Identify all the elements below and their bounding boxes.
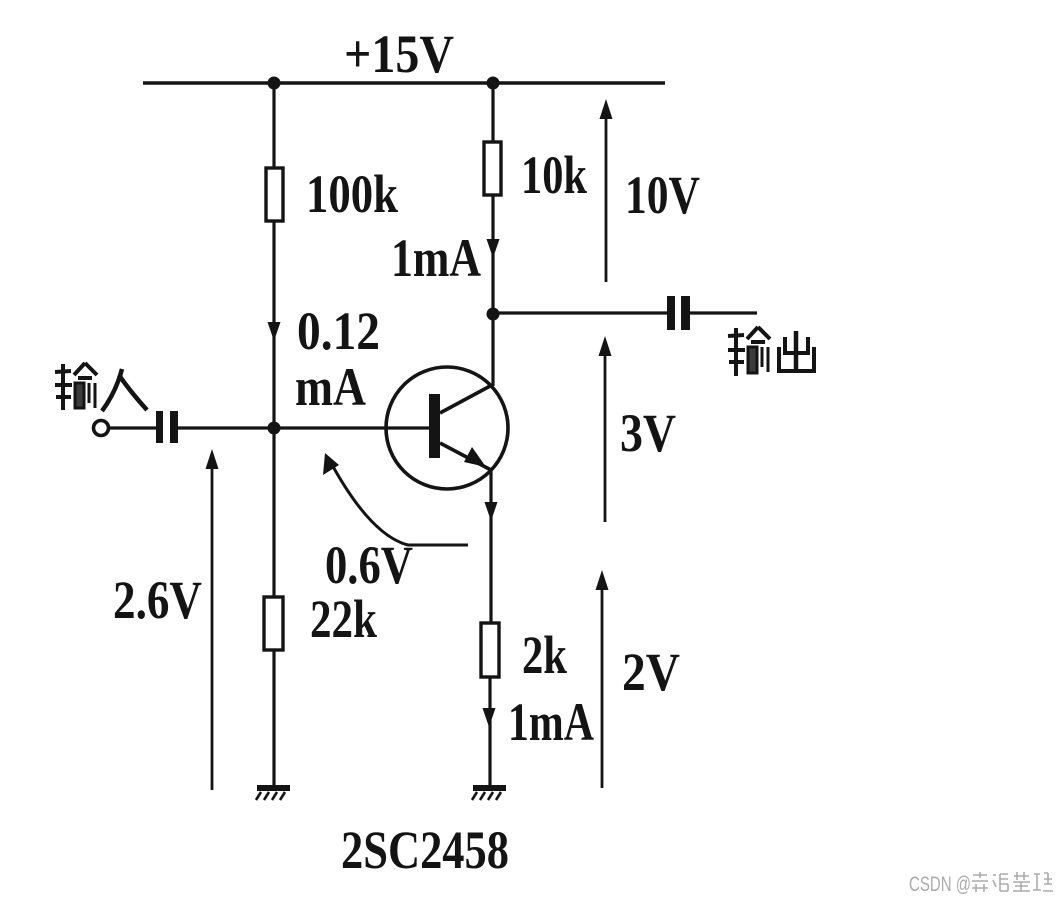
node: base junction — [268, 422, 281, 435]
wire rail to R1 — [272, 83, 275, 170]
label 0.6V — [325, 535, 413, 595]
capacitor C1 — [156, 411, 178, 443]
label 22k — [310, 589, 377, 649]
label 1mA (bottom) — [508, 692, 594, 752]
svg-text:10V: 10V — [625, 165, 700, 225]
measurement arrow 3V — [599, 336, 612, 522]
label 2.6V — [113, 570, 202, 630]
node: rail / R1 junction — [268, 77, 281, 90]
label 输入 (drawn glyphs) — [55, 363, 147, 411]
wire R3 to ground — [272, 650, 275, 786]
label 3V — [620, 403, 676, 463]
capacitor C2 — [667, 296, 690, 330]
label 0.12 — [297, 301, 380, 361]
node: collector junction — [487, 308, 500, 321]
svg-text:10k: 10k — [521, 145, 587, 205]
label 1mA (top) — [391, 228, 481, 288]
wire C2 to output — [690, 311, 757, 314]
svg-text:0.12: 0.12 — [297, 301, 380, 361]
svg-text:2V: 2V — [622, 642, 680, 702]
label 输出 (drawn glyphs) — [728, 327, 814, 376]
+15V supply rail — [143, 81, 665, 84]
label 10k — [521, 145, 587, 205]
wire R1 to base node — [272, 221, 275, 429]
current arrow 1mA (down) — [487, 239, 500, 258]
svg-text:+15V: +15V — [344, 24, 454, 84]
svg-text:2k: 2k — [522, 625, 567, 685]
label 2SC2458 — [341, 820, 509, 880]
svg-text:22k: 22k — [310, 589, 377, 649]
resistor R3 22k — [264, 597, 283, 650]
svg-text:1mA: 1mA — [508, 692, 594, 752]
wire R4 to ground — [488, 677, 491, 786]
label +15V — [344, 24, 454, 84]
watermark CSDN @笔记整理 — [909, 872, 1053, 896]
resistor R1 100k — [266, 168, 283, 221]
label 2k — [522, 625, 567, 685]
input terminal — [94, 421, 109, 436]
wire C1 to transistor base — [178, 426, 431, 429]
wire input terminal to C1 — [109, 426, 157, 429]
measurement arrow 2.6V — [206, 449, 219, 790]
label 100k — [306, 164, 398, 224]
label 10V — [625, 165, 700, 225]
annotation curved arrow 0.6V — [323, 453, 468, 545]
node: rail / R2 junction — [487, 77, 500, 90]
wire collector node to C2 — [493, 311, 667, 314]
wire rail to R2 — [491, 83, 494, 144]
label 2V — [622, 642, 680, 702]
current arrow at emitter (down) — [485, 502, 498, 521]
svg-text:3V: 3V — [620, 403, 676, 463]
resistor R2 10k — [484, 142, 501, 195]
svg-text:2.6V: 2.6V — [113, 570, 202, 630]
transistor Q1 2SC2458 — [386, 367, 508, 489]
wire R2 to collector node — [491, 195, 494, 314]
svg-text:mA: mA — [295, 357, 366, 417]
ground (left) — [256, 788, 290, 800]
svg-text:1mA: 1mA — [391, 228, 481, 288]
svg-text:100k: 100k — [306, 164, 398, 224]
wire collector node to transistor — [491, 314, 494, 386]
current arrow 0.12mA (down) — [268, 322, 281, 341]
resistor R4 2k — [481, 623, 499, 677]
measurement arrow 2V — [596, 570, 609, 788]
wire base node to R3 — [272, 428, 275, 599]
svg-text:CSDN @: CSDN @ — [909, 873, 971, 896]
ground (right) — [472, 788, 506, 800]
current arrow 1mA bottom (down) — [483, 708, 496, 727]
svg-text:2SC2458: 2SC2458 — [341, 820, 509, 880]
measurement arrow 10V — [600, 99, 613, 282]
label mA — [295, 357, 366, 417]
svg-text:0.6V: 0.6V — [325, 535, 413, 595]
wire emitter to R4 — [489, 469, 492, 625]
